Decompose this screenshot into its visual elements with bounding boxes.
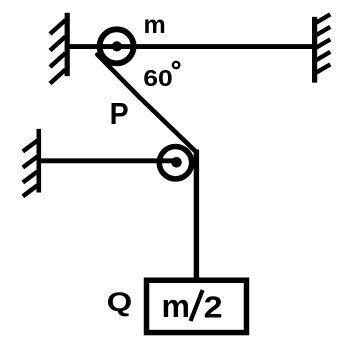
svg-text:60: 60 [143, 65, 173, 91]
svg-text:m: m [144, 11, 166, 39]
svg-text:Q: Q [107, 287, 133, 317]
svg-text:P: P [110, 96, 129, 131]
svg-text:2: 2 [204, 289, 223, 324]
svg-text:m: m [162, 288, 190, 324]
